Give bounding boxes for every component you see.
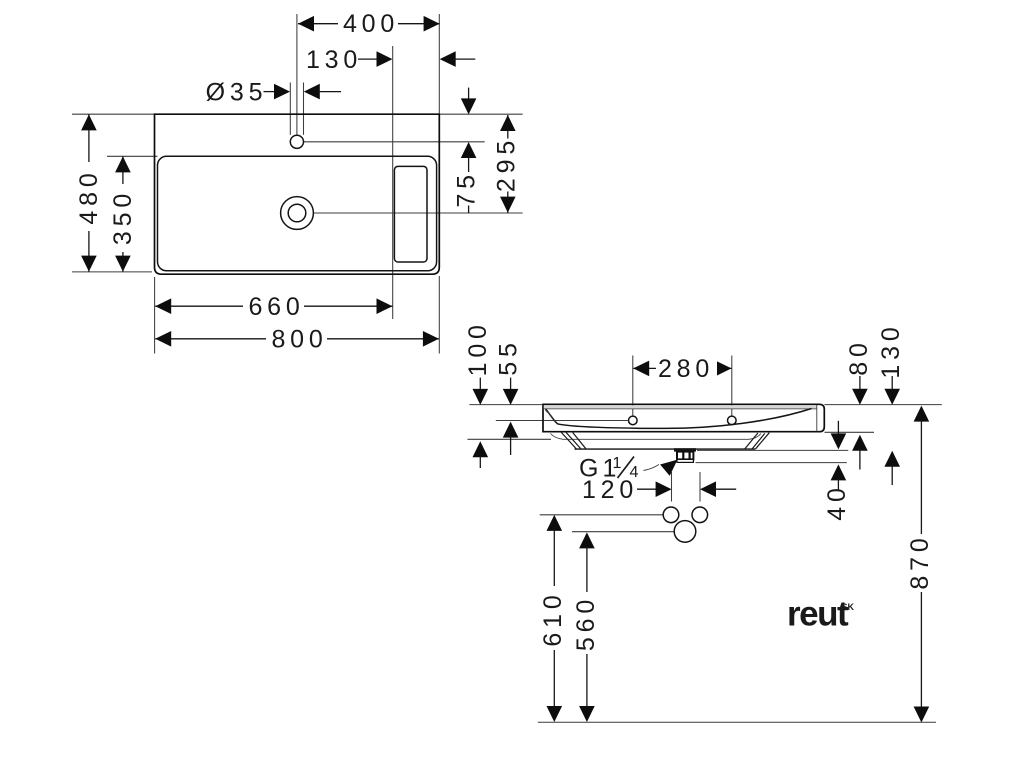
dim 610 [539,515,567,722]
svg-text:40: 40 [823,483,851,520]
extension line: drain right vertical (120) [699,472,701,502]
svg-text:350: 350 [109,189,137,245]
dim 400 [298,10,440,38]
extension line: drain centre right (295) [314,212,523,214]
extension line: bowl top left (350) [107,155,158,157]
extension line: basin top edge left [72,113,155,115]
trap big circle [674,521,696,543]
dim 75 [453,88,481,213]
extension line: basin top surface left (100/55) [469,404,542,406]
extension line: basin right edge above (400/130) [438,14,440,114]
svg-text:1: 1 [613,455,622,472]
extension line: drain left vertical (120) [671,472,673,502]
extension line: drain flange top right (130/40) [697,449,848,451]
dim 130 (plan) [306,46,475,74]
svg-text:Ø35: Ø35 [206,78,268,106]
extension line: basin bottom right (80) [825,431,875,433]
basin outer outline (plan) [155,114,440,274]
svg-text:55: 55 [495,338,523,375]
dim 350 [109,156,137,271]
extension line: basin lip bottom left (100) [468,438,552,440]
right deck hole (side view) [728,416,737,425]
dim 800 [155,326,439,354]
svg-text:295: 295 [493,136,521,192]
svg-text:610: 610 [539,590,567,646]
svg-text:400: 400 [343,10,399,38]
faucet hole circle [290,135,303,148]
extension line: basin right edge below (800) [438,276,440,354]
dim 55 [495,338,523,455]
extension line: shelf line vertical (130/660) [392,46,394,319]
svg-text:280: 280 [658,355,714,383]
svg-text:560: 560 [572,595,600,651]
dim 660 [155,293,392,321]
label G 1 1/4 [579,455,678,483]
left deck hole (side view) [629,416,638,425]
dim 560 [572,532,600,722]
extension line: faucet centre vertical (400) [296,14,298,135]
floor line [538,721,936,723]
extension line: small trap circles line (610) [540,514,663,516]
extension line: right deck hole vertical (280) [731,356,733,416]
dim 40 [823,421,851,521]
bowl rounded rectangle (plan) [158,156,437,270]
dim 120 [582,476,736,504]
extension line: hole left edge (O35) [289,83,291,135]
bowl underside outline (side view) [551,432,770,449]
svg-text:130: 130 [306,46,362,74]
extension line: basin left edge below (660/800) [154,277,156,354]
shelf rectangle (plan) [394,166,427,262]
svg-text:870: 870 [906,533,934,589]
extension line: hole right edge (O35) [303,83,305,135]
basin rim band (side view) [544,405,817,431]
extension line: basin top surface right (80/130/870) [825,404,942,406]
svg-text:reut: reut [787,595,849,634]
dim 480 [75,114,103,271]
dim O35 [206,78,341,106]
svg-text:660: 660 [248,293,304,321]
svg-text:100: 100 [464,320,492,376]
trap small circle right [692,507,708,523]
drain inner circle [288,204,306,222]
dim 870 [906,406,934,723]
svg-text:130: 130 [877,322,905,378]
logo reut [787,595,855,634]
dim 280 [633,355,731,383]
svg-text:480: 480 [75,168,103,224]
svg-text:800: 800 [271,326,327,354]
basin deck outline (side view) [543,404,824,431]
extension line: faucet hole centre right (75) [304,141,485,143]
dim 130 (side) [877,322,905,485]
svg-text:SK: SK [842,602,855,612]
trap small circle left [663,507,679,523]
svg-text:120: 120 [582,476,638,504]
extension line: big trap circle line (560) [572,531,674,533]
dim 80 [845,338,873,469]
drain outer circle [281,197,314,230]
svg-text:80: 80 [845,338,873,375]
basin interior curve (side view) [546,409,812,429]
drain tailpiece fitting [674,448,696,462]
extension line: basin top edge right [439,113,522,115]
dim 295 [493,115,521,213]
extension line: drain flange bottom right (40) [696,462,847,464]
extension line: deck holes centre left (55) [496,420,628,422]
extension line: left deck hole vertical (280) [632,356,634,416]
dim 100 [464,320,492,468]
extension line: basin bottom left (480) [72,271,152,273]
svg-text:75: 75 [453,170,481,207]
